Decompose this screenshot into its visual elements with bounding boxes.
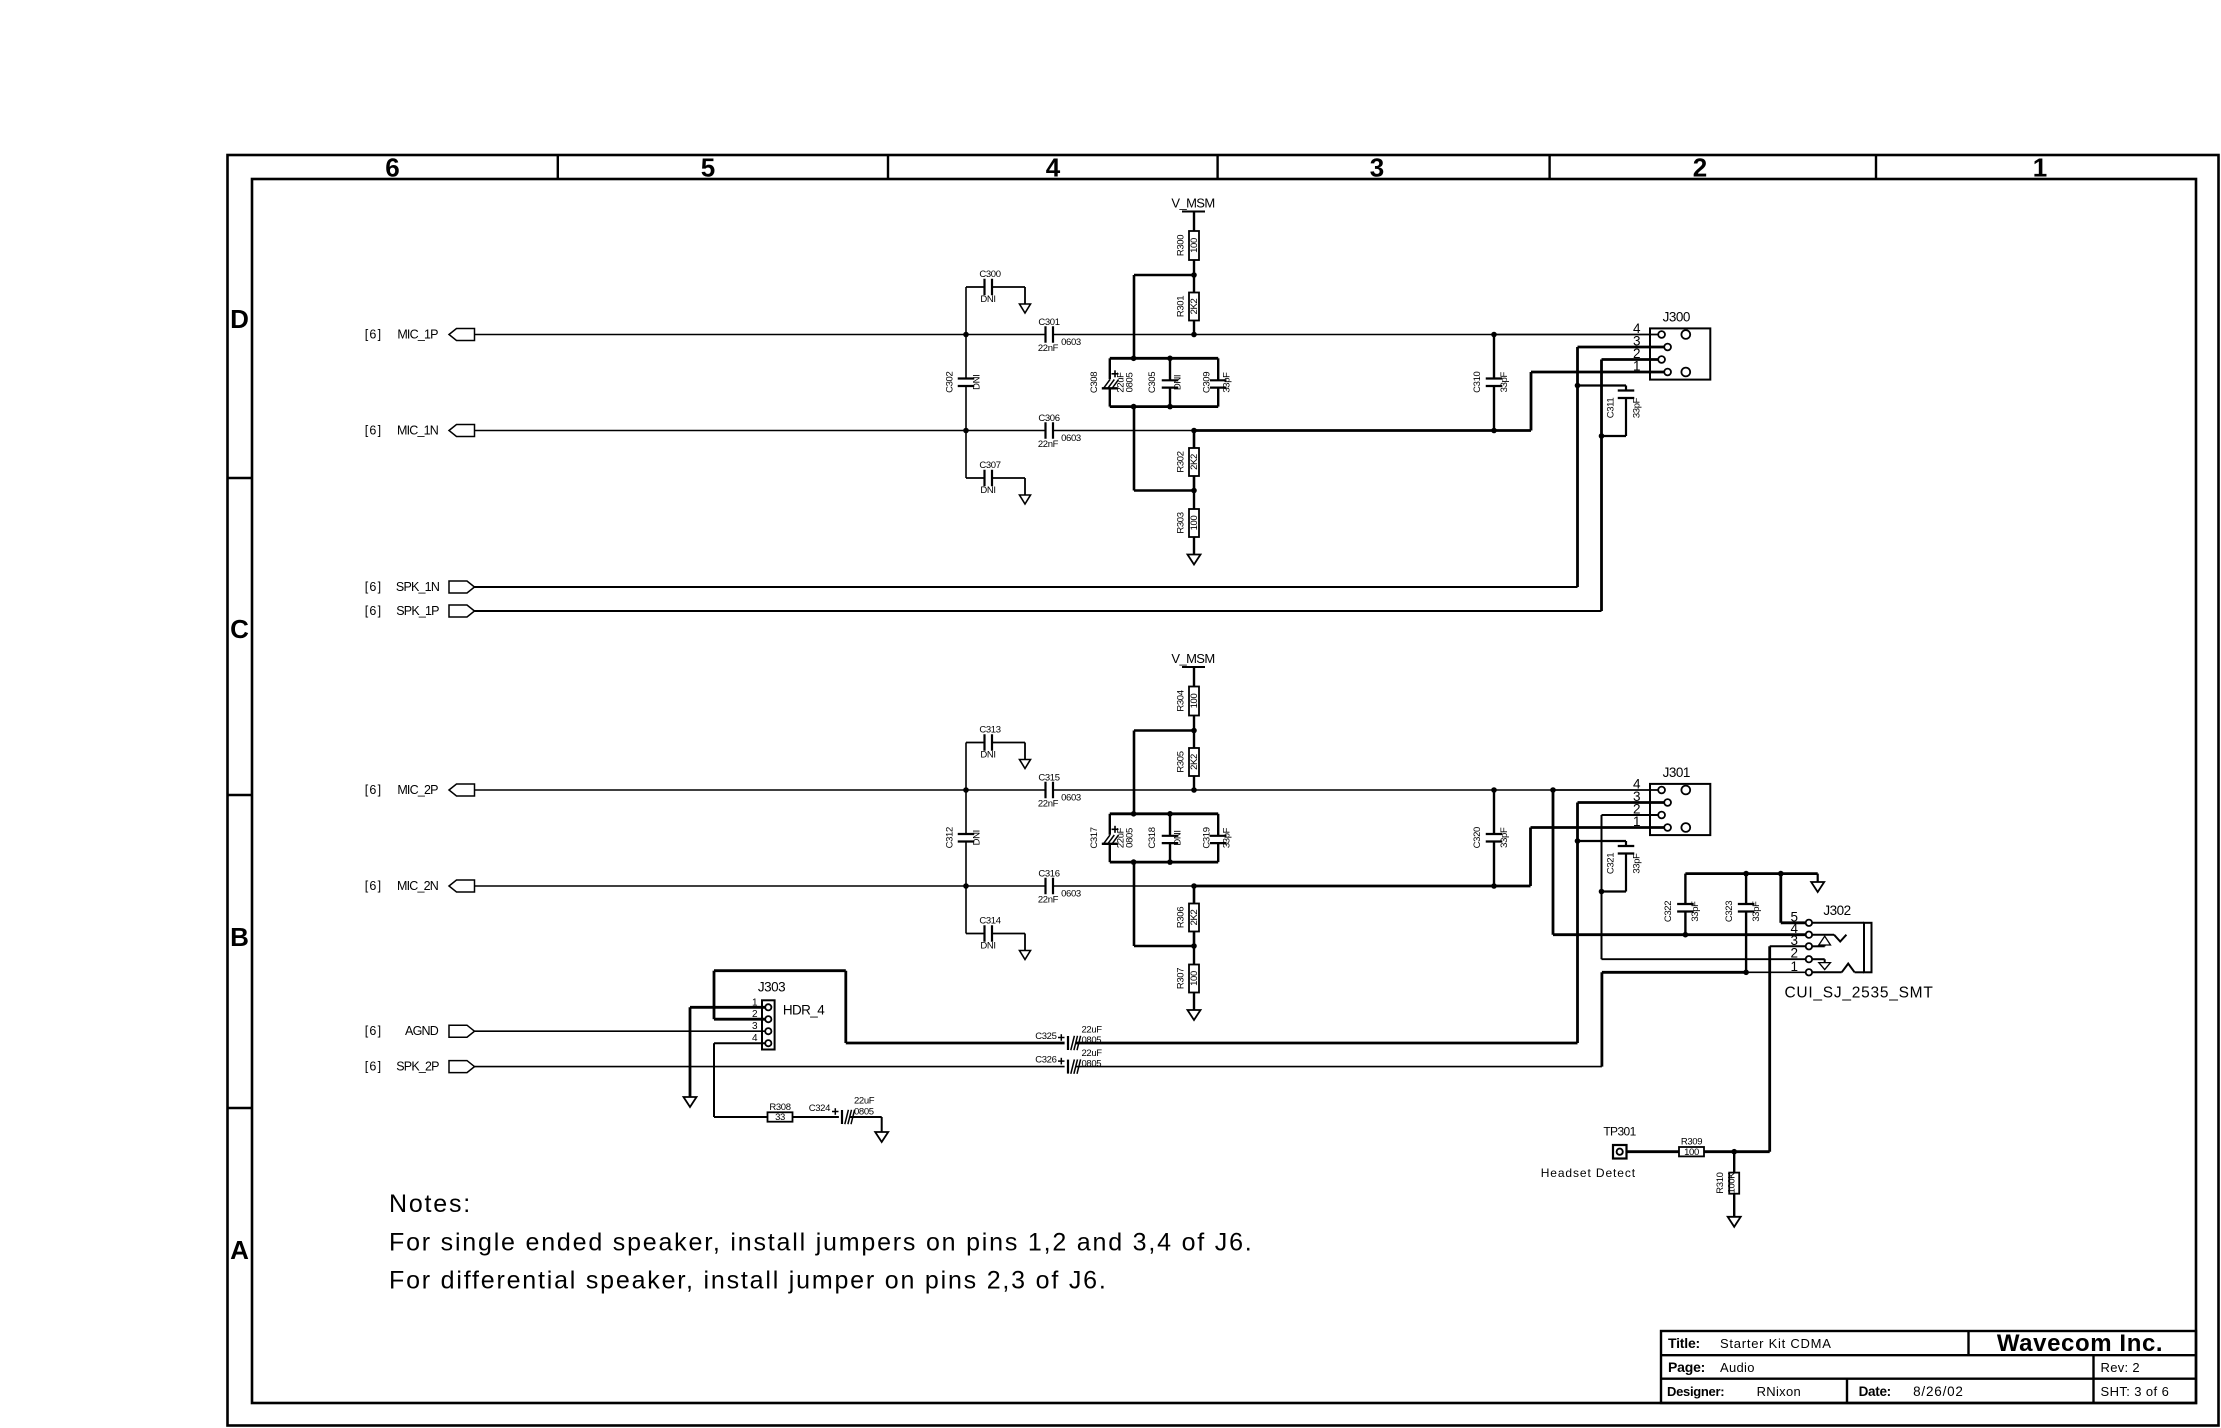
svg-text:33pF: 33pF (1632, 397, 1643, 418)
svg-text:DNI: DNI (972, 830, 983, 845)
svg-text:MIC_2P: MIC_2P (397, 783, 438, 797)
svg-text:R301: R301 (1176, 296, 1187, 317)
svg-text:D: D (230, 304, 249, 334)
svg-text:MIC_1N: MIC_1N (397, 424, 439, 438)
svg-text:[6]: [6] (365, 879, 383, 893)
svg-text:J302: J302 (1823, 903, 1850, 918)
svg-text:33pF: 33pF (1221, 827, 1232, 848)
svg-text:100: 100 (1189, 238, 1200, 253)
svg-text:A: A (230, 1235, 249, 1265)
svg-text:100: 100 (1189, 694, 1200, 709)
svg-text:22nF: 22nF (1038, 439, 1059, 450)
svg-text:DNI: DNI (972, 375, 983, 390)
svg-text:R310: R310 (1715, 1172, 1726, 1193)
svg-text:R303: R303 (1176, 512, 1187, 533)
svg-text:MIC_1P: MIC_1P (397, 328, 438, 342)
svg-text:[6]: [6] (365, 328, 383, 342)
svg-text:HDR_4: HDR_4 (783, 1003, 825, 1018)
svg-text:Notes:: Notes: (389, 1190, 472, 1218)
svg-text:33pF: 33pF (1751, 901, 1762, 922)
svg-text:Headset Detect: Headset Detect (1541, 1166, 1636, 1180)
svg-text:DNI: DNI (980, 941, 995, 952)
svg-text:C309: C309 (1202, 372, 1213, 393)
svg-text:22nF: 22nF (1038, 895, 1059, 906)
svg-text:R306: R306 (1176, 907, 1187, 928)
svg-text:DNI: DNI (980, 294, 995, 305)
svg-text:8/26/02: 8/26/02 (1913, 1384, 1964, 1399)
svg-text:V_MSM: V_MSM (1171, 196, 1214, 211)
svg-text:Audio: Audio (1720, 1360, 1755, 1375)
svg-text:C307: C307 (979, 460, 1000, 471)
svg-text:6: 6 (385, 153, 399, 183)
svg-text:0805: 0805 (1082, 1035, 1102, 1046)
svg-text:For single ended speaker, inst: For single ended speaker, install jumper… (389, 1229, 1254, 1257)
svg-text:C318: C318 (1147, 827, 1158, 848)
svg-text:22nF: 22nF (1038, 343, 1059, 354)
svg-text:2K2: 2K2 (1189, 754, 1200, 770)
svg-text:Page:: Page: (1668, 1359, 1705, 1375)
svg-text:C306: C306 (1038, 413, 1059, 424)
svg-text:22uF: 22uF (1082, 1048, 1103, 1059)
svg-text:C310: C310 (1472, 371, 1483, 392)
svg-text:R305: R305 (1176, 751, 1187, 772)
svg-text:[6]: [6] (365, 1060, 383, 1074)
svg-text:C315: C315 (1038, 773, 1059, 784)
svg-text:0603: 0603 (1061, 337, 1081, 348)
svg-text:J300: J300 (1663, 310, 1690, 325)
svg-text:33pF: 33pF (1690, 901, 1701, 922)
svg-text:33pF: 33pF (1499, 827, 1510, 848)
svg-text:Wavecom Inc.: Wavecom Inc. (1997, 1330, 2163, 1357)
svg-text:R308: R308 (769, 1102, 790, 1113)
svg-text:For differential speaker, inst: For differential speaker, install jumper… (389, 1267, 1108, 1295)
svg-text:R307: R307 (1176, 968, 1187, 989)
svg-text:R300: R300 (1176, 235, 1187, 256)
svg-text:[6]: [6] (365, 424, 383, 438)
svg-text:1: 1 (2033, 153, 2047, 183)
svg-text:C301: C301 (1038, 317, 1059, 328)
svg-text:[6]: [6] (365, 783, 383, 797)
svg-text:Starter Kit CDMA: Starter Kit CDMA (1720, 1336, 1832, 1351)
svg-text:C313: C313 (979, 725, 1000, 736)
svg-text:5: 5 (701, 153, 715, 183)
svg-text:AGND: AGND (405, 1024, 439, 1038)
svg-text:0805: 0805 (1082, 1058, 1102, 1069)
svg-text:22uF: 22uF (854, 1096, 875, 1107)
svg-text:0805: 0805 (854, 1106, 874, 1117)
svg-text:4: 4 (1046, 153, 1061, 183)
svg-text:1: 1 (1790, 959, 1798, 974)
svg-text:0603: 0603 (1061, 793, 1081, 804)
svg-text:2K2: 2K2 (1189, 299, 1200, 315)
svg-text:DNI: DNI (1172, 830, 1183, 845)
svg-text:J301: J301 (1663, 765, 1690, 780)
svg-text:C326: C326 (1035, 1055, 1056, 1066)
svg-text:0603: 0603 (1061, 433, 1081, 444)
svg-text:RNixon: RNixon (1757, 1384, 1801, 1399)
svg-text:DNI: DNI (1172, 375, 1183, 390)
svg-text:SPK_1P: SPK_1P (396, 604, 439, 618)
svg-text:SPK_1N: SPK_1N (396, 580, 440, 594)
svg-text:[6]: [6] (365, 1024, 383, 1038)
svg-text:MIC_2N: MIC_2N (397, 879, 439, 893)
svg-text:C323: C323 (1724, 901, 1735, 922)
svg-text:0805: 0805 (1125, 828, 1136, 848)
svg-text:0805: 0805 (1125, 373, 1136, 393)
svg-text:33pF: 33pF (1221, 372, 1232, 393)
svg-text:2K2: 2K2 (1189, 910, 1200, 926)
svg-text:2: 2 (1693, 153, 1707, 183)
svg-text:0603: 0603 (1061, 889, 1081, 900)
svg-text:22nF: 22nF (1038, 799, 1059, 810)
svg-text:Rev: 2: Rev: 2 (2101, 1360, 2140, 1375)
svg-text:C314: C314 (979, 916, 1000, 927)
svg-text:C: C (230, 614, 249, 644)
svg-text:Date:: Date: (1859, 1384, 1891, 1399)
svg-text:C320: C320 (1472, 827, 1483, 848)
svg-text:C300: C300 (979, 269, 1000, 280)
svg-text:C317: C317 (1089, 827, 1100, 848)
svg-text:100: 100 (1684, 1147, 1699, 1158)
svg-text:C311: C311 (1606, 398, 1617, 419)
svg-text:SPK_2P: SPK_2P (396, 1060, 439, 1074)
svg-text:DNI: DNI (980, 485, 995, 496)
svg-text:V_MSM: V_MSM (1171, 651, 1214, 666)
svg-text:C302: C302 (945, 372, 956, 393)
svg-text:B: B (230, 922, 249, 952)
svg-text:C312: C312 (945, 827, 956, 848)
svg-text:33: 33 (775, 1112, 785, 1123)
svg-text:SHT: 3 of 6: SHT: 3 of 6 (2101, 1384, 2170, 1399)
svg-text:CUI_SJ_2535_SMT: CUI_SJ_2535_SMT (1784, 985, 1933, 1002)
svg-text:C308: C308 (1089, 372, 1100, 393)
svg-text:100K: 100K (1727, 1172, 1738, 1194)
svg-text:DNI: DNI (980, 750, 995, 761)
svg-text:33pF: 33pF (1499, 372, 1510, 393)
svg-text:TP301: TP301 (1603, 1125, 1636, 1139)
svg-text:Title:: Title: (1668, 1335, 1700, 1351)
svg-text:J303: J303 (758, 980, 785, 995)
svg-text:C319: C319 (1202, 827, 1213, 848)
svg-text:[6]: [6] (365, 580, 383, 594)
svg-text:C321: C321 (1606, 853, 1617, 874)
svg-text:R309: R309 (1681, 1137, 1702, 1148)
svg-text:R302: R302 (1176, 451, 1187, 472)
svg-text:C316: C316 (1038, 869, 1059, 880)
svg-text:C324: C324 (809, 1103, 830, 1114)
svg-text:C325: C325 (1035, 1031, 1056, 1042)
svg-text:[6]: [6] (365, 604, 383, 618)
svg-text:3: 3 (1370, 153, 1384, 183)
svg-text:R304: R304 (1176, 690, 1187, 711)
svg-text:C305: C305 (1147, 372, 1158, 393)
svg-text:22uF: 22uF (1082, 1025, 1103, 1036)
svg-text:Designer:: Designer: (1667, 1384, 1724, 1399)
svg-text:100: 100 (1189, 516, 1200, 531)
svg-text:100: 100 (1189, 971, 1200, 986)
svg-text:33pF: 33pF (1632, 853, 1643, 874)
svg-text:2K2: 2K2 (1189, 454, 1200, 470)
svg-text:C322: C322 (1663, 901, 1674, 922)
